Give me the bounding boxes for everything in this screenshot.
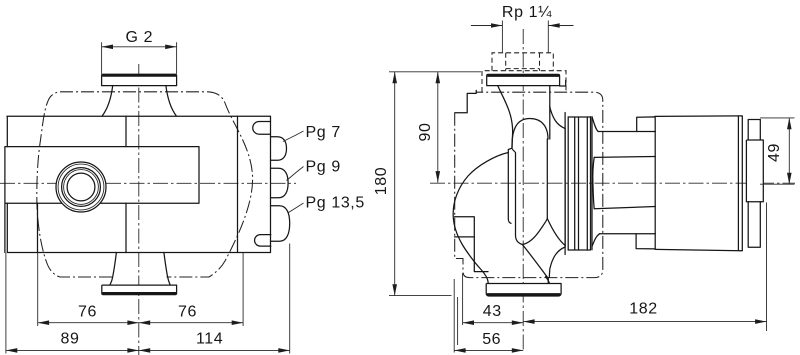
- cable gland Pg 7: [271, 137, 287, 161]
- motor step box bottom: [636, 234, 655, 249]
- dimension 90: [389, 72, 481, 183]
- pump flange edge vertical: [37, 203, 39, 252]
- dimension 49: [760, 118, 795, 184]
- svg-text:G 2: G 2: [126, 29, 154, 46]
- motor seam vertical: [654, 132, 656, 234]
- svg-text:Pg 7: Pg 7: [306, 124, 341, 141]
- leader line Pg 13,5: [289, 203, 304, 213]
- cable gland Pg 9: [271, 168, 289, 198]
- dimension 76 right: [139, 253, 243, 327]
- bottom flange thick face: [102, 292, 176, 295]
- terminal box slot bottom: [255, 235, 271, 247]
- stator waist curve: [593, 157, 594, 208]
- phantom insulation shell outline (right view): [455, 92, 603, 277]
- stator fillet top: [592, 117, 598, 132]
- centerline vertical (pipe axis right view): [522, 29, 524, 352]
- dimension 43: [463, 303, 524, 325]
- top neck right wall: [549, 86, 551, 139]
- Rp extension lines: [502, 21, 548, 53]
- casing right wall: [564, 129, 566, 248]
- svg-text:90: 90: [417, 123, 434, 142]
- volute dome arch: [512, 119, 548, 149]
- top flange G2 bar: [102, 74, 177, 85]
- dimension 76 left: [38, 253, 139, 327]
- side boss box: [455, 217, 475, 237]
- stator inner lines: [594, 157, 655, 209]
- svg-text:182: 182: [629, 301, 658, 318]
- cavity left outer wall: [508, 148, 512, 223]
- motor end verticals: [738, 116, 742, 251]
- leader line Pg 7: [283, 131, 304, 142]
- svg-text:76: 76: [178, 303, 197, 320]
- mounting plate band: [5, 147, 199, 253]
- dimension Rp 1 1/4: [471, 4, 574, 28]
- bottom connection neck (left view): [110, 253, 170, 286]
- svg-text:114: 114: [196, 331, 223, 348]
- dimension 89: [6, 253, 139, 354]
- extension lines bottom right view: [454, 203, 766, 353]
- terminal strip below box: [748, 202, 760, 248]
- svg-text:49: 49: [766, 143, 783, 162]
- neck-to-casing fillet: [550, 107, 565, 129]
- bottom flange bar: [102, 285, 177, 295]
- svg-text:180: 180: [373, 167, 390, 196]
- clamp ring verticals: [565, 113, 592, 255]
- terminal box slot top: [253, 122, 271, 135]
- motor body outer rectangle (front view): [7, 116, 271, 252]
- svg-text:43: 43: [483, 303, 502, 320]
- top neck left wall: [498, 86, 513, 149]
- phantom pump housing outline (left view): [37, 92, 253, 277]
- terminal box divider: [237, 116, 239, 252]
- terminal strip above box: [748, 120, 760, 141]
- top connection neck (left view): [102, 86, 176, 116]
- centerline horizontal (motor axis): [430, 182, 795, 184]
- svg-text:Pg 13,5: Pg 13,5: [306, 195, 365, 212]
- dimension 56: [454, 331, 523, 353]
- pump plug circle rings: [56, 162, 106, 212]
- cable gland Pg 13,5: [271, 206, 290, 242]
- cavity bottom to right wall: [522, 139, 548, 245]
- casing bottom fillet to bottom neck: [549, 247, 565, 277]
- top flange bar (right view): [487, 74, 560, 85]
- centerline vertical (left view pipe axis): [138, 64, 140, 355]
- bottom flange bar (right view): [486, 284, 561, 297]
- bottom neck right wall flare: [546, 277, 550, 284]
- discharge diagonal wall: [522, 245, 548, 284]
- clamp ring caps: [568, 117, 590, 250]
- top flange thick face: [487, 74, 559, 77]
- terminal box side: [746, 140, 763, 202]
- dimension 114: [139, 244, 290, 354]
- svg-text:89: 89: [61, 331, 80, 348]
- dimension 180: [373, 72, 452, 296]
- leader line Pg 9: [287, 167, 304, 181]
- solid step right of top flange: [560, 80, 566, 86]
- elbow outer wall: [453, 153, 508, 284]
- svg-text:Rp 1¼: Rp 1¼: [502, 4, 552, 21]
- motor top edge: [655, 115, 741, 118]
- svg-text:56: 56: [482, 331, 501, 348]
- bottom flange thick face: [487, 293, 560, 296]
- stator shoulder lines: [598, 132, 655, 234]
- dimension 182: [523, 301, 766, 324]
- stator fillet bottom: [592, 234, 600, 247]
- top flange thick face: [102, 74, 176, 77]
- hidden union nut outline (dashed): [482, 71, 566, 92]
- solid step top-left shell: [455, 90, 476, 112]
- svg-text:76: 76: [78, 303, 97, 320]
- motor step box top: [637, 117, 656, 132]
- motor end cap closing: [741, 116, 742, 251]
- shell parting step below boss: [474, 237, 488, 272]
- dimension G 2: [102, 29, 177, 74]
- motor bottom edge: [655, 249, 741, 250]
- return channel fillet: [547, 219, 565, 246]
- housing seam vertical: [125, 116, 127, 252]
- cavity left inner wall: [513, 150, 523, 245]
- centerline horizontal (left view shaft axis): [0, 182, 296, 184]
- svg-text:Pg 9: Pg 9: [306, 158, 341, 175]
- hidden thread lines (dashed): [492, 53, 553, 71]
